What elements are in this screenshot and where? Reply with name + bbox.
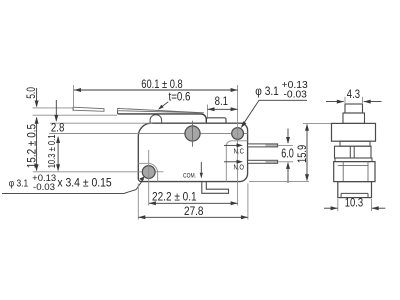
side view: middle block bbox=[335, 146, 372, 158]
dimension 27.8 (bottom) bbox=[138, 184, 248, 220]
inner ear contour around top-right hole bbox=[226, 141, 247, 182]
dimension 4.3 (side view top) bbox=[326, 89, 382, 104]
side view: inner panel line right bbox=[367, 162, 369, 182]
svg-text:22.2 ± 0.1: 22.2 ± 0.1 bbox=[152, 191, 197, 203]
side view: top cap block bbox=[332, 123, 376, 141]
hinge dome on body top bbox=[150, 115, 162, 124]
svg-text:2.8: 2.8 bbox=[51, 123, 65, 135]
svg-text:5.0: 5.0 bbox=[26, 87, 38, 99]
svg-text:60.1 ± 0.8: 60.1 ± 0.8 bbox=[141, 79, 182, 91]
label COM. with down arrow bbox=[183, 162, 203, 180]
side body top extension (15.9 top ref) bbox=[303, 122, 332, 124]
dimension 10.3 ± 0.1 (vertical) bbox=[47, 134, 60, 171]
crosshair vertical through bottom-left hole / 22.2 ext bbox=[148, 150, 150, 206]
svg-text:COM.: COM. bbox=[183, 173, 196, 180]
side view: base inner bottom bar bbox=[341, 193, 368, 197]
label φ3.1 +0.13/-0.03 x 3.4 ± 0.15 (bottom left) with leader bbox=[2, 173, 145, 194]
label N.O with arrow bbox=[224, 160, 244, 172]
svg-text:10.3: 10.3 bbox=[345, 197, 363, 209]
side view: wide thin plate bbox=[335, 158, 372, 162]
svg-text:x 3.4 ± 0.15: x 3.4 ± 0.15 bbox=[57, 177, 111, 189]
svg-text:-0.03: -0.03 bbox=[33, 182, 55, 192]
label t=0.6 with leader bbox=[158, 91, 191, 109]
mounting hole (bottom left) bbox=[142, 166, 155, 179]
svg-text:N.C: N.C bbox=[234, 146, 245, 155]
inner ear contour around bottom-left hole bbox=[138, 163, 157, 181]
dimension 8.1 bbox=[208, 96, 238, 118]
dimension 10.3 (side view bottom) bbox=[324, 197, 385, 211]
switch body outline bbox=[138, 123, 247, 181]
svg-text:N.O: N.O bbox=[234, 163, 245, 172]
svg-text:15.9: 15.9 bbox=[297, 145, 309, 163]
svg-text:t=0.6: t=0.6 bbox=[169, 91, 191, 103]
lever free-position blade (left segment before break) bbox=[73, 107, 104, 111]
side view: lower block bbox=[334, 162, 375, 182]
svg-text:8.1: 8.1 bbox=[215, 96, 228, 108]
body bottom extension to side view (15.9 bottom ref) bbox=[249, 181, 309, 183]
dimension 5.0 (left, vertical) bbox=[26, 87, 38, 108]
dimension 60.1 ± 0.8 (top) bbox=[74, 79, 238, 111]
dimension 6.0 (right of terminals) bbox=[278, 129, 294, 184]
COM terminal (L-shaped) bbox=[202, 182, 229, 194]
lever (pressed-position line with curled right end) bbox=[118, 114, 207, 122]
plunger bump on body top bbox=[206, 118, 226, 123]
svg-text:φ 3.1: φ 3.1 bbox=[255, 86, 278, 98]
svg-text:-0.03: -0.03 bbox=[284, 90, 308, 101]
svg-text:φ 3.1: φ 3.1 bbox=[9, 178, 29, 189]
svg-text:4.3: 4.3 bbox=[347, 89, 360, 101]
mounting hole (top right) bbox=[232, 128, 244, 140]
label φ3.1 +0.13/-0.03 (top right) with leader to top-right hole bbox=[241, 80, 308, 128]
label N.C with arrow bbox=[224, 143, 244, 155]
lever free-position blade (right segment, thin wedge) bbox=[118, 108, 204, 112]
N.O terminal blade bbox=[248, 160, 278, 163]
svg-text:15.2 ± 0.5: 15.2 ± 0.5 bbox=[27, 124, 39, 168]
N.C terminal blade bbox=[248, 144, 278, 147]
lever tick at break bbox=[117, 111, 119, 114]
extension line: body top (left extension) bbox=[50, 122, 152, 124]
side view: lower block inner horizontal bbox=[338, 164, 369, 166]
dimension 15.2 ± 0.5 (left, vertical) bbox=[27, 117, 39, 172]
extension line: lever bottom reference bbox=[33, 114, 118, 116]
svg-text:6.0: 6.0 bbox=[281, 147, 294, 161]
center line through bottom-left hole bbox=[33, 171, 164, 173]
side view: plate connector neck bbox=[350, 146, 354, 158]
svg-text:10.3 ± 0.1: 10.3 ± 0.1 bbox=[47, 134, 58, 168]
dimension 2.8 bbox=[51, 100, 65, 135]
dimension 22.2 ± 0.1 (bottom) bbox=[149, 191, 238, 205]
side view: base block bbox=[338, 182, 372, 198]
dimension 15.9 (vertical, between views) bbox=[297, 124, 309, 182]
side view: upper thin plate bbox=[340, 141, 370, 146]
side view: inner panel line left bbox=[342, 162, 344, 182]
side view: plunger button lower segment bbox=[343, 113, 365, 123]
svg-text:27.8: 27.8 bbox=[184, 206, 204, 218]
crosshair vertical through top-right hole / 60.1 + 8.1 + 22.2 ext bbox=[237, 85, 239, 206]
mounting hole (top center) bbox=[185, 121, 200, 147]
extension line: lever tip top bbox=[33, 107, 74, 109]
center line through top holes bbox=[49, 133, 248, 135]
side view: plunger button upper segment bbox=[345, 104, 363, 113]
